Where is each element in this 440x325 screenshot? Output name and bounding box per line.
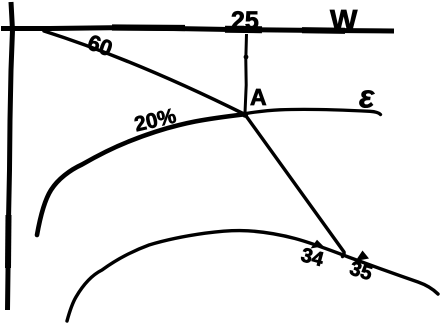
svg-text:25: 25 [231, 7, 259, 35]
svg-text:ε: ε [359, 79, 375, 115]
svg-text:A: A [250, 84, 267, 110]
svg-text:W: W [330, 5, 358, 37]
